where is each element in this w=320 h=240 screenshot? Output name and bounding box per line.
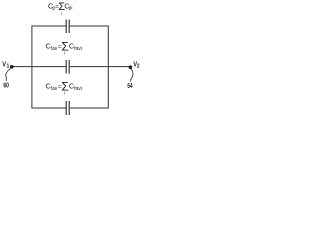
svg-text:fav: fav — [51, 86, 58, 92]
svg-text:favi: favi — [74, 86, 82, 92]
svg-text:i: i — [64, 51, 65, 56]
svg-text:60: 60 — [3, 81, 8, 90]
svg-text:64: 64 — [127, 81, 133, 90]
svg-text:pi: pi — [69, 6, 73, 12]
svg-text:2: 2 — [137, 64, 140, 70]
svg-text:1: 1 — [7, 64, 10, 70]
svg-text:i: i — [64, 91, 65, 96]
svg-text:favi: favi — [74, 46, 82, 52]
svg-text:i: i — [61, 11, 62, 16]
svg-text:fav: fav — [51, 46, 58, 52]
